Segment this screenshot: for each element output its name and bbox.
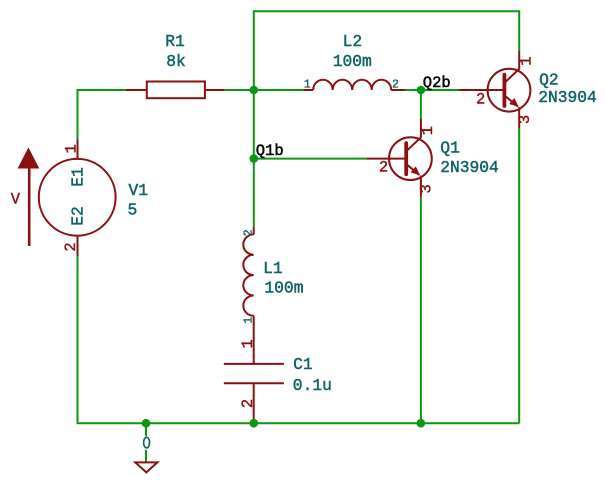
wire Q1 emitter to bottom rail (420, 197, 422, 423)
svg-text:E2: E2 (69, 206, 88, 226)
svg-text:1: 1 (239, 339, 257, 348)
svg-text:3: 3 (516, 115, 534, 124)
wire top rail (254, 10, 519, 12)
wire left column mid (253, 90, 255, 159)
svg-text:0.1u: 0.1u (293, 376, 332, 395)
junction node Q2b (417, 86, 426, 95)
wire Q2b node to Q1 collector (420, 90, 422, 119)
svg-text:V1: V1 (129, 181, 149, 200)
svg-text:Q1: Q1 (440, 138, 460, 157)
wire right column to Q2 collector (518, 10, 520, 51)
voltage probe arrow V (18, 147, 40, 246)
wire L2 to Q2b node (405, 89, 421, 91)
wire ground stub (145, 423, 147, 462)
svg-text:2: 2 (476, 90, 485, 108)
svg-text:2N3904: 2N3904 (538, 88, 597, 107)
power symbol 0 (ground) (135, 436, 157, 472)
wire bottom rail (77, 422, 520, 424)
junction Q1 emitter bottom (417, 419, 426, 428)
junction C1 bottom (250, 419, 259, 428)
transistor Q2 (459, 51, 530, 128)
svg-text:Q2b: Q2b (423, 74, 451, 92)
wire Q1b node to L1 (253, 159, 255, 227)
svg-text:1: 1 (63, 144, 81, 153)
svg-text:2: 2 (242, 229, 255, 236)
svg-text:2N3904: 2N3904 (440, 158, 499, 177)
svg-text:V: V (11, 191, 21, 209)
svg-text:C1: C1 (293, 355, 313, 374)
svg-text:5: 5 (128, 201, 138, 220)
inductor L2 (304, 80, 405, 90)
wire V1 top to R1 (78, 90, 127, 140)
svg-text:3: 3 (418, 184, 436, 193)
wire left column top (253, 10, 255, 90)
svg-text:E1: E1 (69, 167, 88, 187)
svg-text:1: 1 (518, 56, 536, 65)
svg-text:1: 1 (304, 79, 311, 92)
svg-text:1: 1 (419, 126, 437, 135)
capacitor C1 (224, 364, 284, 423)
svg-text:Q1b: Q1b (256, 142, 284, 160)
svg-text:8k: 8k (166, 52, 186, 71)
wire V1 bottom to bottom rail (77, 257, 79, 424)
net 0 label (144, 437, 150, 448)
resistor R1 (126, 82, 225, 99)
svg-text:1: 1 (242, 317, 255, 324)
svg-text:R1: R1 (165, 32, 185, 51)
svg-text:100m: 100m (333, 52, 372, 71)
wire Q1b node to Q1 base (254, 158, 367, 160)
wire Q2 emitter to bottom rail (518, 128, 520, 423)
junction ground (142, 419, 151, 428)
junction node Q1b (250, 154, 259, 163)
svg-text:100m: 100m (264, 278, 303, 297)
junction at R1 / left column (250, 86, 259, 95)
wire Q2b node to Q2 base (421, 89, 459, 91)
svg-text:2: 2 (62, 242, 80, 251)
svg-text:2: 2 (379, 159, 388, 177)
svg-text:2: 2 (392, 79, 399, 92)
svg-text:L1: L1 (263, 259, 283, 278)
svg-text:Q2: Q2 (539, 71, 559, 90)
transistor Q1 (367, 119, 432, 197)
svg-text:L2: L2 (343, 32, 363, 51)
wire junction to L2 (254, 89, 304, 91)
voltage source V1 (39, 139, 116, 256)
wire R1 to junction (225, 89, 254, 91)
svg-text:2: 2 (239, 399, 257, 408)
inductor L1 (243, 227, 253, 364)
